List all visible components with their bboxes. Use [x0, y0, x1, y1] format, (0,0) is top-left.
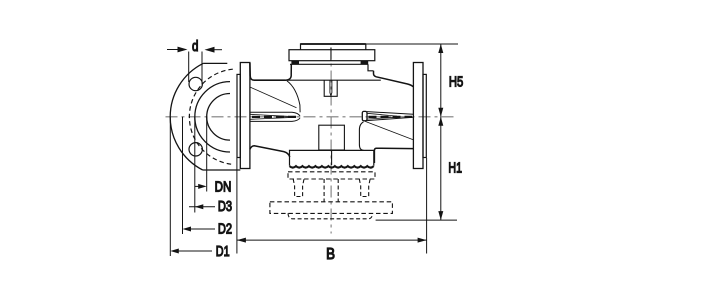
top neck right slope	[374, 71, 414, 87]
svg-text:D2: D2	[218, 222, 232, 238]
left flange plate	[240, 63, 250, 169]
right flange plate	[413, 63, 423, 169]
right nozzle center dashes	[369, 116, 413, 118]
bolt hole bottom	[189, 143, 202, 156]
right nozzle inner cone	[367, 113, 397, 119]
svg-text:H1: H1	[448, 161, 462, 177]
H1 dimension line	[440, 117, 442, 220]
bonnet flange left edge	[286, 64, 292, 80]
stem inside tube	[330, 80, 332, 96]
DN leader arrow	[195, 185, 200, 187]
bonnet base line	[285, 79, 381, 81]
stem guide tube	[324, 80, 337, 96]
raised face arc D3	[195, 82, 230, 152]
D3 leader arrow	[189, 206, 215, 208]
extension line D3	[194, 117, 196, 213]
vertical centerline	[330, 48, 332, 234]
B right extension line	[426, 158, 428, 254]
right nozzle cone	[367, 112, 413, 121]
svg-text:d: d	[192, 39, 198, 55]
B left extension line	[236, 158, 238, 254]
right nozzle mouth	[362, 111, 367, 120]
hidden stud right	[359, 179, 370, 197]
left nozzle center dashes	[252, 116, 298, 118]
hidden stud left	[293, 179, 304, 197]
left view bottom cut line	[203, 169, 241, 171]
bolt hole top	[189, 77, 202, 90]
horizontal centerline	[166, 116, 458, 118]
H top reference line	[366, 43, 458, 45]
svg-text:H5: H5	[449, 75, 463, 91]
bottom neck left outline	[250, 146, 290, 157]
right flange raised face	[423, 74, 426, 157]
left view outer arc D1	[170, 63, 203, 170]
D1 leader arrow	[174, 250, 212, 252]
svg-text:B: B	[326, 246, 335, 263]
H5 dimension line	[440, 44, 442, 117]
bonnet flange right edge	[368, 64, 374, 71]
hidden cover rect A	[288, 172, 375, 179]
web diagonal upper-left	[250, 87, 297, 108]
bolt circle dashed arc D2	[189, 69, 232, 164]
bottom flange band	[290, 150, 374, 165]
gland bolt left	[291, 61, 299, 64]
hidden stud center	[324, 179, 338, 202]
dimension d left arrow	[167, 49, 178, 51]
plug	[319, 125, 345, 150]
plug stem lower	[331, 150, 333, 165]
extension line D1	[169, 117, 171, 256]
dimension d extension lines	[189, 52, 202, 85]
gland flange	[289, 50, 375, 61]
svg-text:D1: D1	[216, 244, 230, 260]
H1 bottom reference line	[376, 219, 457, 221]
extension line DN	[206, 117, 208, 192]
bonnet cap	[301, 44, 366, 50]
left nozzle inner cone	[250, 114, 294, 119]
extension line D2	[182, 117, 184, 234]
hidden base rect B	[270, 202, 393, 214]
left flange raised face	[237, 74, 240, 157]
bonnet flange top line	[290, 63, 368, 65]
bottom neck right outline	[374, 148, 413, 163]
left nozzle outline	[250, 112, 300, 121]
top neck left outline	[250, 63, 286, 80]
chamber wall right below seat	[359, 122, 363, 150]
left view top cut line	[203, 62, 227, 64]
svg-text:DN: DN	[215, 180, 232, 196]
dimension d right arrow	[214, 49, 223, 51]
B dimension line	[237, 239, 427, 241]
bore arc DN	[207, 93, 230, 140]
gland bolt right	[361, 61, 369, 64]
stem upper line	[330, 48, 332, 61]
hidden boss C	[288, 213, 373, 218]
band scallop	[290, 166, 374, 168]
web diagonal lower-right	[365, 121, 413, 139]
D2 leader arrow	[186, 228, 215, 230]
chamber wall sweep left	[287, 81, 300, 112]
svg-text:D3: D3	[218, 199, 232, 215]
